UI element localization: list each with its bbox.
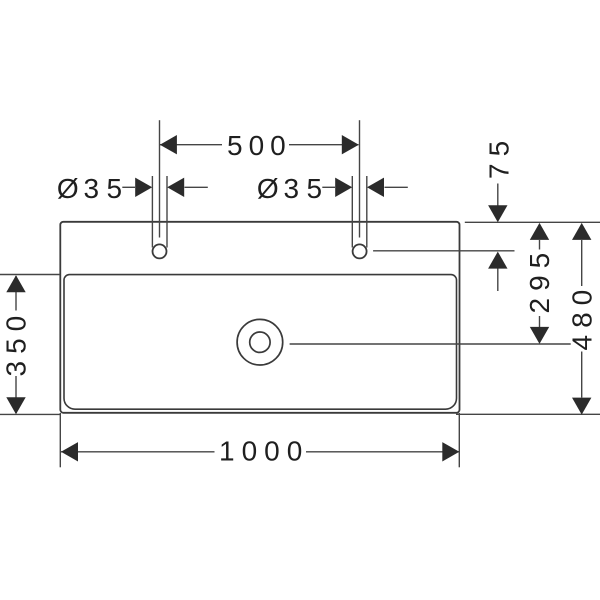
svg-text:1000: 1000 — [219, 436, 309, 467]
svg-text:480: 480 — [567, 283, 598, 351]
svg-text:500: 500 — [227, 130, 292, 161]
svg-text:350: 350 — [1, 309, 32, 377]
svg-text:Ø35: Ø35 — [57, 173, 128, 204]
svg-text:Ø35: Ø35 — [257, 173, 328, 204]
svg-text:295: 295 — [524, 246, 555, 314]
svg-text:75: 75 — [484, 134, 515, 179]
